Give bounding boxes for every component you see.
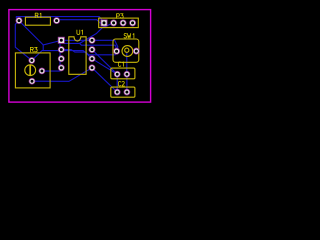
pad C1.1 <box>114 71 120 77</box>
pad R3.right <box>39 68 45 74</box>
resistor R1 body <box>25 17 50 25</box>
label R3 <box>30 47 33 52</box>
label C1 <box>118 62 121 67</box>
pad U1.1 square <box>58 37 64 43</box>
pad R3.top <box>29 57 35 63</box>
pad P3.1 square <box>101 20 107 26</box>
wire row2-left to SW1.left <box>61 50 116 55</box>
wire R1.left to P3.1 top horizontal <box>16 17 102 21</box>
pad U1.3 <box>58 56 64 62</box>
capacitor C1 body <box>111 68 135 79</box>
label R1 <box>35 13 38 18</box>
wire row3-right to C1.left <box>92 59 117 74</box>
wire row4-right to C2.left <box>92 68 117 92</box>
capacitor C2 body <box>111 87 135 97</box>
trimmer R3 body <box>15 53 50 88</box>
pad SW1.left <box>114 48 120 54</box>
pad U1.4 <box>58 65 64 71</box>
wire J1 down to J2 <box>42 45 44 51</box>
wire R1.left diagonal to junction J1 <box>19 21 43 45</box>
wire R3.bottom to row4-right <box>32 68 92 82</box>
label C2 <box>118 82 121 87</box>
pad C2.1 <box>114 89 120 95</box>
pad P3.2 <box>111 20 117 26</box>
pad SW1.right <box>133 48 139 54</box>
wire R1.left to R3.top via left vertical <box>15 21 32 61</box>
pad P3.4 <box>130 20 136 26</box>
label P3 <box>117 14 120 19</box>
wire U1 pin1 down left side to R3.right <box>42 43 60 71</box>
wire pin8 to SW1.left second <box>80 43 117 49</box>
pad U1.8 <box>89 37 95 43</box>
pad C1.2 <box>124 71 130 77</box>
pad U1.7 <box>89 47 95 53</box>
switch SW1 inner circle <box>125 48 129 52</box>
pad U1.2 <box>58 47 64 53</box>
pads <box>16 18 139 96</box>
trimmer R3 circle <box>25 65 36 76</box>
wire pin1-pin8-SW1.left <box>61 40 118 51</box>
connector P3 body <box>99 18 139 28</box>
pad P3.3 <box>120 20 126 26</box>
wire J1 to U1 pin1 <box>43 41 61 45</box>
wire row2-right to C1.left <box>92 50 117 75</box>
label U1 <box>77 30 80 35</box>
wire C1.left to C2.left <box>116 74 118 92</box>
wire R1.right to P3.1 <box>57 20 104 23</box>
pad R3.bottom <box>29 78 35 84</box>
label SW1 <box>124 34 127 39</box>
silkscreen text <box>30 13 133 86</box>
board outline (Edge.Cuts) <box>9 10 151 103</box>
pad R1.1 <box>16 18 22 24</box>
switch SW1 circle <box>122 46 133 57</box>
pad C2.2 <box>124 89 130 95</box>
pad U1.6 <box>89 56 95 62</box>
IC U1 body <box>69 37 86 75</box>
trimmer R3 wiper bar <box>29 65 31 76</box>
wire SW1.center to C1.right <box>126 52 128 74</box>
pad U1.5 <box>89 65 95 71</box>
wire U1 pin1 to P3.2 <box>65 23 114 44</box>
wire C1.right to C2.right <box>126 74 128 92</box>
wire R3.top to row3-right via horizontal y50.6 <box>32 51 92 61</box>
switch SW1 body <box>113 39 139 62</box>
pad R1.2 <box>54 18 60 24</box>
silkscreen <box>15 17 138 97</box>
